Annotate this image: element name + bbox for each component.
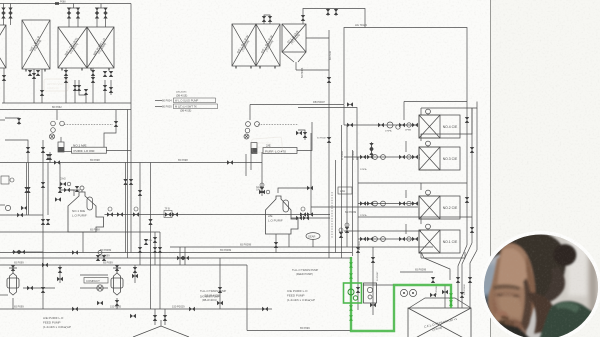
valve	[296, 216, 302, 220]
wire left edge stub y205	[0, 204, 5, 206]
purifier NO.1 M/E L.O PURIF body	[68, 192, 104, 232]
valve	[133, 267, 137, 273]
valve	[96, 255, 100, 261]
valve	[367, 155, 373, 159]
valve	[103, 71, 107, 77]
annotation box 2	[174, 104, 218, 109]
wire left small loop y118	[5, 118, 19, 125]
wire purif2 relief	[298, 130, 305, 140]
valve	[307, 186, 313, 190]
P088 junction blob	[55, 2, 59, 5]
relief valve purifier 1	[114, 121, 118, 127]
heat exchanger GE LO CLR A	[232, 24, 256, 66]
wire valve loop C/D-2	[97, 8, 106, 27]
photo bg cool upper left	[478, 226, 514, 272]
wire left edge stub y120	[0, 119, 5, 121]
valve	[356, 287, 360, 293]
wire drop C2	[74, 80, 76, 103]
wire riser x125	[125, 163, 127, 253]
valve	[1, 8, 5, 14]
wire CE1 bottom drop	[420, 252, 422, 258]
heat exchanger NO.2 LO CLR (tube)	[58, 27, 87, 68]
valve	[412, 201, 418, 205]
instrument circle	[409, 289, 416, 296]
purifier 1 vent circle	[80, 186, 84, 190]
valve	[8, 8, 12, 14]
wire stub b2	[335, 9, 337, 17]
wire drop D2	[104, 80, 106, 103]
photo neck hair shadow bridge	[528, 292, 554, 334]
wire riser x477	[476, 108, 478, 250]
valve	[19, 250, 25, 254]
valve	[41, 147, 45, 153]
wire bottom tank feed x445	[444, 285, 446, 308]
purifier 2 bowl capsule	[283, 200, 289, 212]
engine NO.1 C/E	[419, 224, 460, 253]
photo shirt collar highlight	[556, 303, 580, 313]
wire drop D3	[110, 80, 112, 95]
wire row NO1	[358, 238, 418, 240]
wire strainer out	[64, 151, 72, 153]
wire riser x467	[466, 102, 468, 246]
gauge circle between pumps	[97, 285, 103, 291]
valve	[102, 255, 106, 261]
instrument circle	[98, 251, 102, 255]
valve	[73, 85, 77, 91]
wire stub to bus 1	[73, 4, 75, 9]
wire drop C3	[79, 80, 86, 103]
wire riser x344b	[343, 105, 345, 126]
wire riser x160	[159, 232, 161, 309]
valve	[470, 147, 474, 153]
wire CE4 loop b	[421, 102, 477, 109]
valve	[103, 13, 107, 19]
wire purif2 heater stub	[249, 105, 251, 121]
valve	[55, 197, 61, 201]
valve	[465, 197, 469, 203]
valve	[129, 179, 133, 185]
valve	[227, 160, 233, 164]
valve	[76, 13, 80, 19]
wire riser x150	[150, 163, 152, 310]
valve	[300, 212, 306, 216]
valve	[130, 314, 136, 318]
wire bus y232	[0, 231, 160, 233]
valve	[67, 8, 71, 14]
wire drop B2	[41, 69, 43, 103]
valve	[334, 9, 338, 15]
valve	[431, 277, 435, 283]
wire pump2 gauge link	[80, 287, 108, 289]
heat exchanger NO.1 LO CLR	[22, 20, 50, 69]
green pump box	[344, 283, 362, 303]
wire purif2 drop x262	[261, 152, 263, 196]
heat exchanger LO CLR partial (left edge)	[0, 25, 6, 68]
photo dark clothing under chin	[476, 318, 534, 337]
heat exchanger ST LO CLR	[282, 24, 306, 52]
wire ann arrow1	[155, 100, 162, 102]
wire riser pair x28	[28, 163, 30, 216]
wire G outlet to riser	[306, 37, 329, 39]
valve	[24, 187, 28, 193]
valve	[144, 239, 148, 245]
wire row NO2b	[311, 206, 418, 208]
wire CE1 left drop	[405, 224, 407, 234]
valve	[303, 216, 309, 220]
wire bus P0099 y272	[400, 271, 433, 273]
wire riser x352	[352, 150, 354, 256]
instrument circle	[381, 201, 386, 206]
wire link green-box east	[363, 284, 394, 286]
wire riser x117 pump	[116, 265, 118, 272]
valve	[57, 277, 63, 281]
motor circle	[108, 207, 112, 211]
wire house feed	[59, 163, 61, 185]
webcam photo	[474, 226, 600, 337]
valve	[95, 13, 99, 19]
valve	[46, 219, 50, 225]
annotation box 1	[174, 98, 216, 103]
TF B cluster box	[164, 211, 172, 218]
wire diag c	[462, 243, 472, 308]
LAH label box	[338, 187, 352, 194]
valve	[399, 237, 405, 241]
valve	[177, 256, 183, 260]
valve	[76, 8, 80, 14]
wire bus y231 right	[344, 230, 421, 232]
valve	[40, 90, 44, 96]
wire drop x155b	[154, 309, 156, 325]
instrument circle	[407, 201, 411, 205]
valve	[345, 227, 349, 233]
wire day tank stub	[160, 320, 162, 326]
wire riser x341	[341, 125, 343, 258]
wire bottom bus y330	[247, 330, 351, 332]
wire stub to bus 2	[100, 4, 102, 9]
motor circle	[345, 223, 349, 227]
photo mute wash	[483, 233, 599, 337]
photo mustache	[498, 320, 515, 328]
photo lower lip chin	[501, 329, 516, 336]
valve	[41, 182, 45, 188]
valve	[41, 287, 45, 293]
wire purif2 vent link	[278, 188, 310, 193]
valve	[67, 13, 71, 19]
green valve 2	[349, 273, 353, 279]
COMPACT GAG label box	[84, 278, 108, 284]
heater circles purifier 1	[49, 121, 64, 139]
dashed control line	[64, 124, 113, 126]
wire pump gauge link	[23, 287, 55, 289]
photo hair bun	[554, 244, 577, 266]
photo cheek light	[499, 293, 521, 318]
wire purif1 drop	[49, 152, 51, 163]
valve	[360, 155, 366, 159]
wire bus y103	[2, 102, 131, 104]
wire purif2 out	[297, 122, 312, 151]
wire valve stub x135	[134, 265, 136, 283]
wire relief drop	[104, 110, 116, 147]
valve	[327, 77, 331, 83]
wire HG 79123 header	[344, 28, 467, 105]
valve	[369, 143, 373, 149]
valve	[347, 102, 353, 106]
wire riser x140	[139, 163, 141, 266]
valve	[26, 187, 30, 193]
wire purif2 house out	[291, 217, 330, 219]
wire CE1 loop	[421, 217, 472, 224]
photo neck	[534, 299, 552, 333]
motor circle	[339, 228, 343, 232]
wire row NO4	[344, 124, 418, 126]
wire drop x185 pair b	[184, 247, 186, 265]
wire riser pair x26	[26, 163, 28, 216]
valve	[158, 247, 162, 253]
wire riser 80P102 x329	[328, 30, 330, 258]
wire drop x165b	[164, 309, 166, 325]
photo screen lower left	[476, 288, 506, 337]
instrument circle	[407, 155, 411, 159]
valve	[133, 212, 139, 216]
valve	[163, 315, 167, 321]
wire row NO2	[358, 203, 418, 205]
valve	[138, 247, 142, 253]
valve	[347, 123, 353, 127]
wire purif2 drop2	[275, 234, 277, 253]
valve	[326, 9, 330, 15]
valve	[117, 212, 123, 216]
valve	[430, 293, 436, 297]
valve	[138, 190, 142, 196]
webcam white ring	[482, 233, 600, 337]
valve	[1, 13, 5, 19]
wire riser x13b	[12, 298, 14, 309]
wire CE3 loop	[421, 108, 472, 141]
valve	[327, 137, 331, 143]
wire CE4 left drop	[403, 102, 405, 121]
instrument circle	[407, 237, 411, 241]
valve	[64, 70, 68, 76]
wire bus y252	[0, 252, 352, 254]
valve	[399, 201, 405, 205]
wire valve loop E/F	[264, 15, 270, 24]
dashed instrument line vertical	[331, 192, 333, 238]
valve	[153, 315, 157, 321]
wire CE2 loop west	[358, 182, 421, 184]
valve	[72, 307, 78, 311]
wire top right loop	[326, 9, 365, 28]
wire bus y258	[0, 257, 352, 259]
wire drop B	[33, 69, 35, 103]
wire stub above G	[302, 14, 304, 24]
instrument circle	[373, 201, 378, 206]
wire bus 65P099 y265	[0, 264, 247, 266]
pump A/E purif LO feed no.1	[7, 268, 19, 295]
instrument circle	[387, 122, 393, 128]
valve	[218, 287, 222, 293]
valve	[301, 15, 305, 21]
photo under chin shadow	[496, 330, 526, 337]
valve	[148, 219, 152, 225]
wire top bus P088	[0, 3, 131, 5]
wire riser x472	[471, 108, 473, 243]
valve	[274, 242, 278, 248]
valve	[123, 179, 127, 185]
photo forehead highlight	[498, 248, 527, 287]
valve	[165, 212, 171, 216]
wire row NO3	[344, 156, 418, 158]
engine NO.4 C/E	[419, 109, 460, 138]
wire diag a	[424, 258, 450, 280]
instrument circle	[396, 125, 400, 129]
wire bus y215 left	[0, 214, 43, 216]
twin pump box gray	[364, 283, 377, 303]
valve	[412, 123, 418, 127]
wire purif2 bottom drop	[288, 234, 290, 247]
wire riser x43	[42, 140, 44, 309]
valve	[260, 187, 264, 193]
valve	[268, 16, 272, 22]
wire drop D	[92, 68, 94, 103]
valve	[367, 237, 373, 241]
valve	[339, 232, 343, 238]
instrument circle	[5, 205, 10, 210]
wire diag d	[470, 250, 477, 308]
green valve 6	[449, 300, 453, 306]
wire strainer feed	[60, 137, 62, 142]
green valve 4	[349, 315, 353, 321]
wire NO3 feed vert	[371, 142, 373, 157]
instrument circle	[381, 155, 386, 160]
valve	[465, 117, 469, 123]
photo bg warm right	[548, 226, 600, 318]
valve	[17, 118, 21, 124]
valve	[97, 301, 103, 305]
valve	[95, 8, 99, 14]
wire riser x358	[357, 157, 359, 310]
valve	[356, 247, 360, 253]
photo eye left	[493, 292, 521, 298]
wire diag b	[458, 245, 467, 308]
green pump circle	[348, 289, 354, 295]
wire riser x48	[47, 163, 49, 216]
wire bus y247	[170, 246, 433, 248]
wire valve stub x60	[59, 265, 61, 283]
valve	[307, 212, 313, 216]
valve	[48, 154, 52, 160]
valve	[107, 212, 113, 216]
valve	[262, 16, 266, 22]
photo head hair silhouette	[490, 232, 566, 305]
wire left edge stub y295	[0, 294, 8, 296]
strainer purifier 2	[251, 143, 257, 154]
valve	[84, 89, 88, 95]
faint stamp smudge 2	[252, 137, 283, 153]
wire purif1 label out	[106, 150, 131, 152]
DPI instrument box left	[1, 176, 9, 184]
valve	[360, 237, 366, 241]
valve	[27, 286, 33, 290]
valve	[371, 257, 375, 263]
wire bus y309	[0, 308, 272, 310]
instrument circle	[373, 237, 378, 242]
dashed control line purifier 2	[258, 124, 298, 126]
wire riser x373	[372, 247, 374, 315]
relief valve purifier 2	[303, 132, 307, 138]
photo bg bright window	[568, 230, 587, 296]
photo nose tip	[497, 311, 508, 318]
wire riser x117b	[116, 298, 118, 309]
wire check feed	[70, 189, 80, 191]
valve	[412, 155, 418, 159]
pump pair dots	[403, 292, 405, 294]
valve	[77, 85, 81, 91]
photo face left shadow	[489, 258, 500, 330]
photo eye right	[497, 294, 503, 296]
valve	[13, 250, 19, 254]
valve	[296, 131, 302, 135]
photo screen light streak	[480, 289, 492, 295]
twin pump circles	[367, 287, 372, 292]
valve	[468, 277, 472, 283]
photo nostril	[501, 316, 509, 320]
heater circles purifier 2	[244, 122, 259, 139]
wire drop C	[65, 68, 67, 103]
wire CE1 loop west	[358, 216, 421, 218]
photo nose bridge shadow	[493, 296, 499, 314]
valve	[153, 247, 157, 253]
wire CE riser join	[421, 252, 465, 258]
valve	[412, 237, 418, 241]
wire riser x347	[346, 125, 348, 247]
photo sideburn wisp	[521, 278, 532, 331]
valve	[46, 154, 50, 160]
purifier 1 bowl capsule	[87, 197, 93, 210]
valve	[72, 250, 78, 254]
valve	[2, 75, 6, 81]
wire drop x180 pair a	[179, 247, 181, 265]
wire left valve stub B	[10, 4, 12, 26]
wire drop x247	[246, 265, 248, 331]
heat exchanger GE LO CLR B	[256, 24, 280, 66]
wire drop A	[3, 68, 5, 103]
photo hair curls right	[543, 267, 565, 303]
valve	[460, 292, 464, 298]
valve	[103, 8, 107, 14]
filter funnel below ST CLR	[282, 52, 329, 70]
valve	[36, 70, 40, 76]
right blank page margin	[491, 0, 600, 337]
valve	[54, 160, 60, 164]
wire CE4 loop a	[404, 101, 467, 103]
photo shirt	[538, 301, 600, 337]
valve	[42, 263, 48, 267]
valve	[360, 201, 366, 205]
motor circle	[260, 183, 264, 187]
wire house out y214.5	[105, 214, 331, 216]
wire bus DB0007	[250, 104, 344, 106]
valve	[367, 201, 373, 205]
valve	[217, 301, 223, 305]
photo temple shadow right	[524, 256, 535, 322]
wire day tank top	[133, 326, 189, 337]
valve	[262, 307, 268, 311]
photo lower face shadow	[504, 319, 527, 337]
valve	[103, 85, 107, 91]
wire tank top duct	[409, 298, 471, 308]
wire purif2 riser x357	[298, 108, 357, 161]
photo brow left	[493, 284, 520, 290]
